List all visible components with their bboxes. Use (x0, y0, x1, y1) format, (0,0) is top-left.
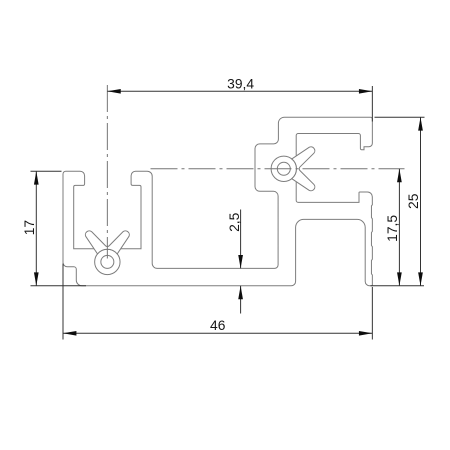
arrowheads dimension 25 (418, 117, 423, 286)
screw boss right: outer collar circle (271, 156, 296, 181)
arrowheads dimension 17 (34, 171, 39, 286)
screw boss left: screw hole (101, 255, 114, 268)
arrowheads dimension 2,5 (238, 255, 243, 299)
patch: wall line gap at right boss (295, 156, 298, 183)
center line vertical (left boss axis) (106, 85, 108, 259)
dimension 46: dim line and extension lines (63, 264, 372, 340)
arrowheads dimension 17,5 (397, 169, 402, 286)
screw boss right: grip wings (292, 147, 315, 191)
svg-text:17,5: 17,5 (385, 215, 400, 242)
dimension 17: dim line and extension lines (31, 171, 87, 286)
svg-text:25: 25 (406, 193, 421, 209)
svg-text:39,4: 39,4 (227, 76, 254, 91)
patch: floor line gap at left boss (94, 248, 121, 250)
dimension 2,5: dim lines (240, 210, 242, 314)
svg-text:2,5: 2,5 (227, 212, 242, 232)
screw boss right: screw hole (277, 162, 290, 175)
screw boss left: outer collar circle (95, 249, 120, 274)
aluminium profile cross-section outline (63, 117, 372, 286)
dimension 25: dim line and extension lines (375, 117, 425, 286)
arrowheads dimension 46 (63, 331, 372, 336)
arrowheads dimension 39,4 (107, 89, 372, 94)
dimension 17,5: dim line and extension line (371, 169, 425, 286)
center line horizontal (right boss axis) (151, 168, 405, 170)
svg-text:46: 46 (210, 318, 226, 333)
dimension 39,4: dim line and extension line (107, 86, 372, 122)
screw boss left: grip wings (85, 231, 129, 254)
svg-text:17: 17 (22, 220, 37, 235)
